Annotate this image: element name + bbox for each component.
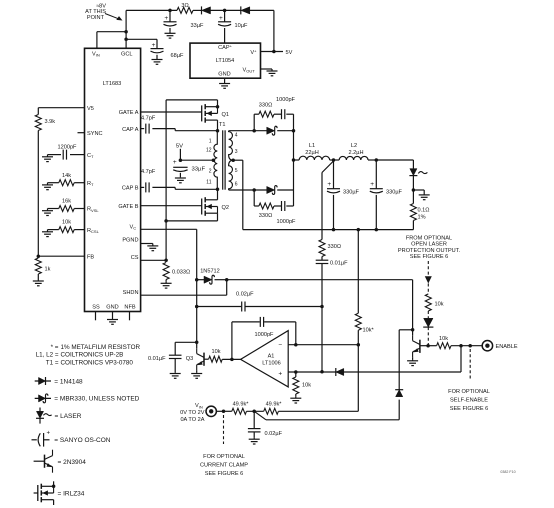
svg-text:CAP+: CAP+ bbox=[218, 44, 233, 52]
svg-text:1%: 1% bbox=[418, 215, 426, 221]
svg-text:POINT: POINT bbox=[87, 15, 105, 21]
svg-text:1000pF: 1000pF bbox=[276, 97, 296, 103]
svg-text:COILTRONICS UP-2B: COILTRONICS UP-2B bbox=[61, 352, 124, 359]
svg-text:+: + bbox=[152, 42, 156, 49]
svg-text:SEE FIGURE 6: SEE FIGURE 6 bbox=[205, 471, 244, 477]
svg-text:Q3: Q3 bbox=[186, 356, 193, 362]
svg-text:= 1N4148: = 1N4148 bbox=[54, 378, 83, 385]
svg-text:CURRENT CLAMP: CURRENT CLAMP bbox=[200, 463, 248, 469]
svg-text:49.9k*: 49.9k* bbox=[266, 402, 283, 408]
svg-text:GATE B: GATE B bbox=[118, 204, 138, 210]
svg-text:V5: V5 bbox=[87, 106, 94, 112]
svg-text:+: + bbox=[219, 15, 223, 22]
svg-text:1k: 1k bbox=[45, 267, 51, 273]
svg-text:= SANYO OS-CON: = SANYO OS-CON bbox=[54, 437, 110, 444]
svg-text:10µF: 10µF bbox=[235, 23, 248, 29]
svg-text:330µF: 330µF bbox=[386, 190, 403, 196]
svg-text:0.033Ω: 0.033Ω bbox=[172, 270, 190, 276]
svg-text:330Ω: 330Ω bbox=[259, 213, 273, 219]
svg-text:= 2N3904: = 2N3904 bbox=[58, 459, 87, 466]
svg-text:2: 2 bbox=[209, 168, 212, 174]
svg-text:330µF: 330µF bbox=[343, 190, 360, 196]
svg-text:L1: L1 bbox=[309, 143, 315, 149]
svg-text:4: 4 bbox=[235, 133, 238, 139]
svg-text:CAP B: CAP B bbox=[122, 186, 139, 192]
svg-text:10k: 10k bbox=[211, 349, 220, 355]
svg-text:GCL: GCL bbox=[121, 52, 133, 58]
svg-text:ENABLE: ENABLE bbox=[496, 344, 518, 350]
svg-text:14k: 14k bbox=[62, 173, 71, 179]
svg-text:3: 3 bbox=[235, 149, 238, 155]
svg-text:GATE A: GATE A bbox=[119, 110, 139, 116]
svg-text:SEE FIGURE 6: SEE FIGURE 6 bbox=[410, 254, 449, 260]
svg-text:FOR OPTIONAL: FOR OPTIONAL bbox=[448, 389, 490, 395]
svg-text:330Ω: 330Ω bbox=[328, 244, 342, 250]
svg-text:COILTRONICS VP3-0780: COILTRONICS VP3-0780 bbox=[61, 359, 134, 366]
svg-text:330Ω: 330Ω bbox=[259, 103, 273, 109]
svg-text:0.01µF: 0.01µF bbox=[330, 261, 348, 267]
svg-text:GND: GND bbox=[106, 305, 118, 311]
svg-text:0V TO 2V: 0V TO 2V bbox=[180, 410, 205, 416]
svg-text:+: + bbox=[327, 181, 331, 188]
svg-text:1200pF: 1200pF bbox=[58, 144, 78, 150]
svg-text:0A TO 2A: 0A TO 2A bbox=[180, 417, 204, 423]
svg-text:1: 1 bbox=[209, 138, 212, 144]
svg-text:0.1Ω: 0.1Ω bbox=[418, 208, 430, 214]
svg-text:3Ω: 3Ω bbox=[181, 3, 188, 9]
svg-text:OPEN LASER: OPEN LASER bbox=[411, 242, 447, 248]
svg-text:68µF: 68µF bbox=[171, 53, 184, 59]
svg-text:VOUT: VOUT bbox=[243, 68, 256, 74]
svg-text:12: 12 bbox=[206, 148, 212, 154]
svg-text:+: + bbox=[370, 181, 374, 188]
svg-text:CT: CT bbox=[87, 153, 94, 159]
svg-text:PGND: PGND bbox=[122, 238, 138, 244]
svg-text:33µF: 33µF bbox=[192, 166, 206, 172]
svg-text:NFB: NFB bbox=[124, 305, 135, 311]
svg-text:+: + bbox=[47, 430, 51, 436]
svg-text:11: 11 bbox=[206, 180, 211, 186]
svg-text:* =: * = bbox=[51, 344, 59, 351]
svg-text:SELF-ENABLE: SELF-ENABLE bbox=[450, 398, 488, 404]
svg-text:0.02µF: 0.02µF bbox=[236, 291, 254, 297]
svg-text:GND: GND bbox=[218, 72, 230, 78]
svg-text:4.7pF: 4.7pF bbox=[141, 115, 156, 121]
svg-text:6: 6 bbox=[235, 182, 238, 188]
svg-text:5: 5 bbox=[235, 168, 238, 174]
svg-text:0.02µF: 0.02µF bbox=[265, 431, 283, 437]
svg-text:4.7pF: 4.7pF bbox=[141, 169, 156, 175]
svg-text:49.9k*: 49.9k* bbox=[233, 402, 250, 408]
svg-text:Q2: Q2 bbox=[222, 205, 229, 211]
svg-text:SYNC: SYNC bbox=[87, 131, 103, 137]
svg-text:RVSL: RVSL bbox=[87, 207, 99, 213]
svg-text:LT1683: LT1683 bbox=[103, 81, 122, 87]
svg-text:22µH: 22µH bbox=[305, 150, 319, 156]
svg-text:10k: 10k bbox=[439, 336, 448, 342]
svg-text:L1, L2 =: L1, L2 = bbox=[36, 352, 59, 359]
svg-text:VC: VC bbox=[130, 224, 137, 230]
svg-text:A1: A1 bbox=[268, 353, 275, 359]
svg-text:VIN: VIN bbox=[195, 403, 203, 409]
svg-text:5V: 5V bbox=[286, 50, 293, 56]
svg-text:SEE FIGURE 6: SEE FIGURE 6 bbox=[450, 406, 489, 412]
svg-text:1% METALFILM RESISTOR: 1% METALFILM RESISTOR bbox=[61, 344, 141, 351]
svg-text:FROM OPTIONAL: FROM OPTIONAL bbox=[406, 235, 452, 241]
svg-text:LT1006: LT1006 bbox=[262, 360, 281, 366]
svg-text:1N5712: 1N5712 bbox=[200, 268, 220, 274]
svg-text:= MBR330, UNLESS NOTED: = MBR330, UNLESS NOTED bbox=[54, 396, 139, 403]
svg-text:1000pF: 1000pF bbox=[255, 332, 275, 338]
svg-text:+: + bbox=[278, 370, 282, 377]
svg-text:PROTECTION OUTPUT.: PROTECTION OUTPUT. bbox=[398, 248, 461, 254]
svg-text:RT: RT bbox=[87, 181, 94, 187]
svg-text:T1: T1 bbox=[219, 122, 226, 128]
svg-text:VIN: VIN bbox=[92, 52, 100, 58]
svg-text:CS: CS bbox=[131, 255, 139, 261]
svg-text:= LASER: = LASER bbox=[55, 413, 82, 420]
svg-text:10k: 10k bbox=[62, 220, 71, 226]
svg-text:= IRLZ34: = IRLZ34 bbox=[58, 490, 85, 497]
svg-text:3.9k: 3.9k bbox=[45, 119, 56, 125]
svg-text:10k: 10k bbox=[302, 383, 311, 389]
svg-text:+: + bbox=[173, 159, 177, 166]
svg-text:T1 =: T1 = bbox=[46, 359, 59, 366]
svg-text:FB: FB bbox=[87, 254, 94, 260]
svg-text:LT1054: LT1054 bbox=[216, 58, 235, 64]
svg-text:2.2µH: 2.2µH bbox=[348, 150, 363, 156]
svg-text:10k*: 10k* bbox=[363, 328, 375, 334]
svg-text:RCSL: RCSL bbox=[87, 228, 100, 234]
svg-text:+: + bbox=[164, 15, 168, 22]
svg-text:CAP A: CAP A bbox=[122, 127, 139, 133]
svg-text:1000pF: 1000pF bbox=[277, 219, 297, 225]
svg-text:5V: 5V bbox=[176, 144, 183, 150]
svg-text:V+: V+ bbox=[250, 49, 257, 57]
svg-text:33µF: 33µF bbox=[191, 23, 204, 29]
svg-text:SHDN: SHDN bbox=[123, 290, 139, 296]
svg-text:−: − bbox=[278, 342, 282, 349]
svg-text:Q1: Q1 bbox=[222, 112, 229, 118]
svg-text:SS: SS bbox=[92, 305, 100, 311]
svg-text:16k: 16k bbox=[62, 199, 71, 205]
svg-text:0.01µF: 0.01µF bbox=[148, 356, 166, 362]
svg-text:10k: 10k bbox=[435, 302, 444, 308]
svg-text:0382 F10: 0382 F10 bbox=[500, 470, 515, 474]
svg-text:FOR OPTIONAL: FOR OPTIONAL bbox=[203, 454, 245, 460]
svg-text:L2: L2 bbox=[351, 143, 357, 149]
